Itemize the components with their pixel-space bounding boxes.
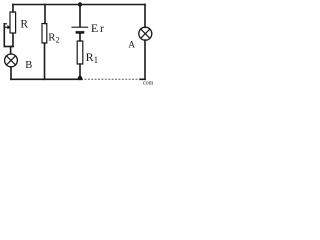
wire bottom right solid stub [140, 78, 145, 80]
svg-text:R: R [20, 19, 28, 31]
wire bottom dashed segment [85, 78, 141, 80]
wire jog below R to slider line [4, 46, 13, 48]
svg-text:com: com [143, 81, 154, 87]
svg-text:A: A [128, 40, 135, 50]
wire stub below R [12, 34, 14, 47]
lamp B cross [7, 56, 16, 65]
lamp A circle [139, 27, 152, 40]
wire stub top into R2 [44, 5, 46, 24]
wire right side lower [144, 40, 146, 79]
resistor R1 body [77, 41, 83, 64]
lamp A cross [141, 29, 150, 38]
lamp B circle [5, 54, 18, 67]
rheostat arrow shaft [4, 26, 8, 28]
resistor R body [10, 12, 16, 33]
wire lamp B to bottom [10, 67, 12, 80]
rheostat slider top tick [4, 23, 6, 25]
wire stub battery top [79, 5, 81, 27]
wire R1 to bottom [79, 64, 81, 78]
svg-text:E: E [91, 21, 98, 35]
wire right side upper [144, 5, 146, 28]
resistor R2 body [42, 24, 47, 44]
battery long plate [72, 26, 88, 28]
svg-text:r: r [100, 23, 104, 35]
svg-text:B: B [25, 60, 32, 71]
rheostat slider wire [3, 24, 5, 47]
wire battery to R1 [79, 34, 81, 41]
battery short plate [76, 31, 85, 34]
junction node top [78, 2, 82, 6]
wire bottom left solid [11, 78, 82, 80]
wire lamp B feed [10, 47, 12, 55]
wire R2 to bottom [44, 43, 46, 79]
rheostat arrow head [7, 25, 10, 29]
junction node bottom [78, 76, 82, 80]
wire top horizontal [13, 4, 145, 6]
wire stub from top into R [12, 5, 14, 13]
